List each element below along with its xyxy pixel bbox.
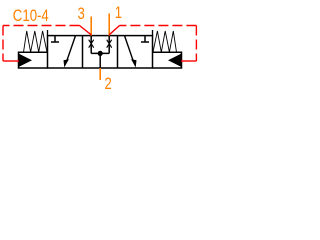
port 1 connection line: [108, 14, 110, 36]
left pilot line: solid run into pilot box: [3, 60, 19, 62]
left pilot triangle: [19, 54, 32, 67]
position divider right: [117, 36, 119, 68]
right position: blocked port stub (T): [141, 36, 149, 42]
left return spring: [24, 30, 48, 52]
left pilot line: dashed top run: [3, 25, 80, 27]
left pilot line: tap at port 3 (solid diagonal): [80, 26, 92, 35]
centre position: left stub from port 3: [90, 36, 92, 54]
left position: blocked port stub (T): [51, 36, 59, 42]
centre position: junction dot: [98, 51, 103, 56]
right return spring: [153, 30, 177, 52]
right pilot line: dashed right drop: [195, 26, 197, 62]
right pilot box: [153, 52, 182, 68]
right pilot line: tap at port 1 (solid diagonal): [109, 26, 119, 35]
port 2 connection line: [99, 68, 101, 80]
svg-text:1: 1: [115, 4, 122, 22]
right pilot triangle: [168, 54, 181, 67]
right position: flow arrow 3->2: [125, 36, 137, 68]
right pilot line: solid run into pilot box: [181, 60, 196, 62]
centre position: right stub from port 1: [108, 36, 110, 54]
centre position: line to port 2: [99, 53, 101, 68]
valve body outline (3-position): [48, 36, 153, 68]
centre position: connecting bar: [91, 52, 109, 54]
svg-text:3: 3: [78, 5, 85, 23]
left pilot box: [19, 52, 48, 68]
left pilot line: dashed left drop: [2, 26, 4, 62]
left position: flow arrow 1->2: [64, 36, 76, 68]
right pilot line: dashed top run: [120, 25, 197, 27]
centre position: closed symbol X on right stub: [107, 40, 112, 48]
position divider left: [82, 36, 84, 68]
centre position: closed symbol X on left stub: [89, 40, 94, 48]
port 3 connection line: [90, 17, 92, 36]
svg-text:C10-4: C10-4: [13, 7, 49, 25]
svg-text:2: 2: [105, 75, 112, 93]
